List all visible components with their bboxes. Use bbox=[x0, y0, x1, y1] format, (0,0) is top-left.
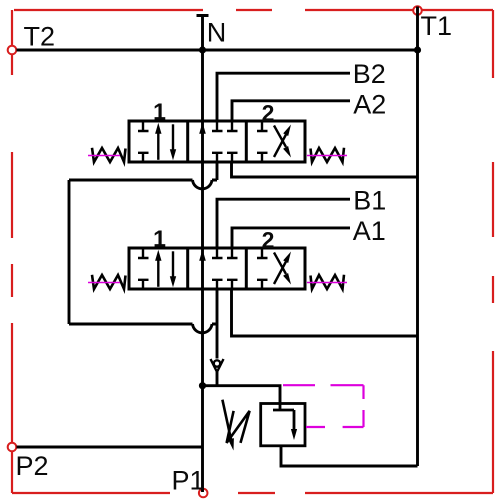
svg-text:B1: B1 bbox=[353, 185, 386, 215]
svg-text:A1: A1 bbox=[353, 216, 386, 246]
svg-text:P2: P2 bbox=[16, 451, 49, 481]
svg-text:T1: T1 bbox=[421, 11, 453, 41]
svg-text:2: 2 bbox=[262, 100, 275, 126]
svg-text:1: 1 bbox=[153, 226, 166, 252]
svg-text:A2: A2 bbox=[353, 90, 386, 120]
svg-text:2: 2 bbox=[262, 227, 275, 253]
svg-text:T2: T2 bbox=[24, 22, 56, 52]
svg-text:P1: P1 bbox=[172, 466, 205, 496]
svg-text:B2: B2 bbox=[353, 59, 386, 89]
svg-text:1: 1 bbox=[153, 99, 166, 125]
svg-text:N: N bbox=[207, 18, 227, 48]
